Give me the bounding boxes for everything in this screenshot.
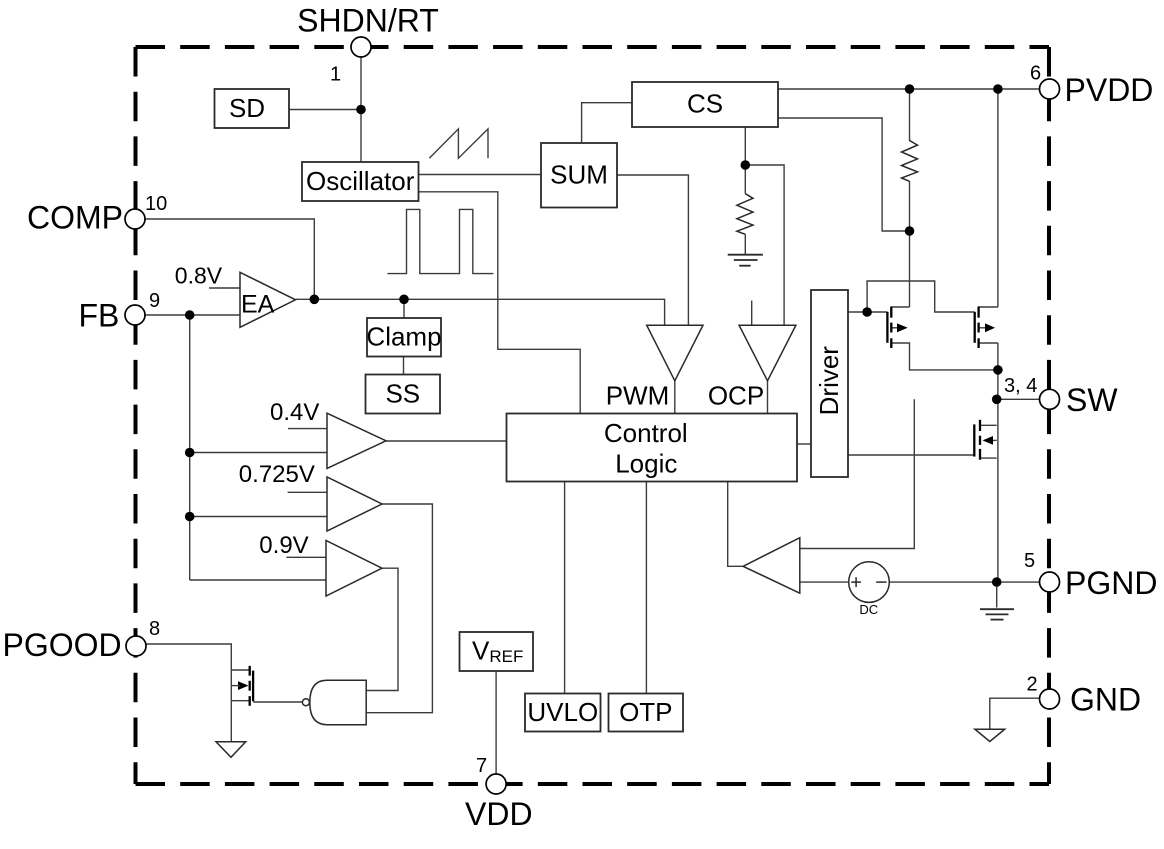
svg-text:OTP: OTP bbox=[619, 697, 672, 727]
svg-text:Control: Control bbox=[604, 418, 688, 448]
svg-text:SUM: SUM bbox=[550, 160, 608, 190]
svg-text:UVLO: UVLO bbox=[527, 697, 598, 727]
svg-text:1: 1 bbox=[330, 64, 341, 86]
svg-text:0.8V: 0.8V bbox=[175, 263, 223, 289]
svg-text:Oscillator: Oscillator bbox=[306, 166, 415, 196]
svg-text:PVDD: PVDD bbox=[1065, 72, 1154, 108]
svg-text:Driver: Driver bbox=[814, 346, 844, 416]
svg-text:EA: EA bbox=[241, 291, 275, 319]
svg-text:Logic: Logic bbox=[615, 449, 677, 479]
svg-text:10: 10 bbox=[145, 193, 167, 215]
svg-text:GND: GND bbox=[1070, 682, 1141, 718]
svg-text:OCP: OCP bbox=[708, 380, 764, 410]
svg-text:SHDN/RT: SHDN/RT bbox=[297, 3, 439, 39]
svg-text:FB: FB bbox=[79, 298, 120, 334]
svg-text:COMP: COMP bbox=[27, 200, 123, 236]
svg-text:CS: CS bbox=[687, 89, 723, 119]
svg-text:SS: SS bbox=[385, 379, 420, 409]
svg-text:7: 7 bbox=[476, 755, 487, 777]
svg-text:8: 8 bbox=[149, 618, 160, 640]
svg-text:0.725V: 0.725V bbox=[239, 461, 315, 488]
svg-text:2: 2 bbox=[1027, 674, 1038, 696]
svg-text:0.9V: 0.9V bbox=[259, 532, 308, 559]
svg-text:SD: SD bbox=[229, 93, 265, 123]
svg-text:0.4V: 0.4V bbox=[270, 399, 319, 426]
svg-text:Clamp: Clamp bbox=[366, 322, 441, 352]
svg-text:6: 6 bbox=[1030, 63, 1041, 85]
svg-text:9: 9 bbox=[149, 290, 160, 312]
svg-text:PWM: PWM bbox=[606, 380, 670, 410]
svg-text:5: 5 bbox=[1024, 550, 1035, 572]
svg-text:PGND: PGND bbox=[1065, 565, 1157, 601]
svg-text:VDD: VDD bbox=[465, 796, 533, 832]
svg-text:3, 4: 3, 4 bbox=[1004, 375, 1037, 397]
svg-text:DC: DC bbox=[859, 602, 878, 617]
svg-text:SW: SW bbox=[1066, 382, 1118, 418]
svg-text:PGOOD: PGOOD bbox=[3, 627, 122, 663]
